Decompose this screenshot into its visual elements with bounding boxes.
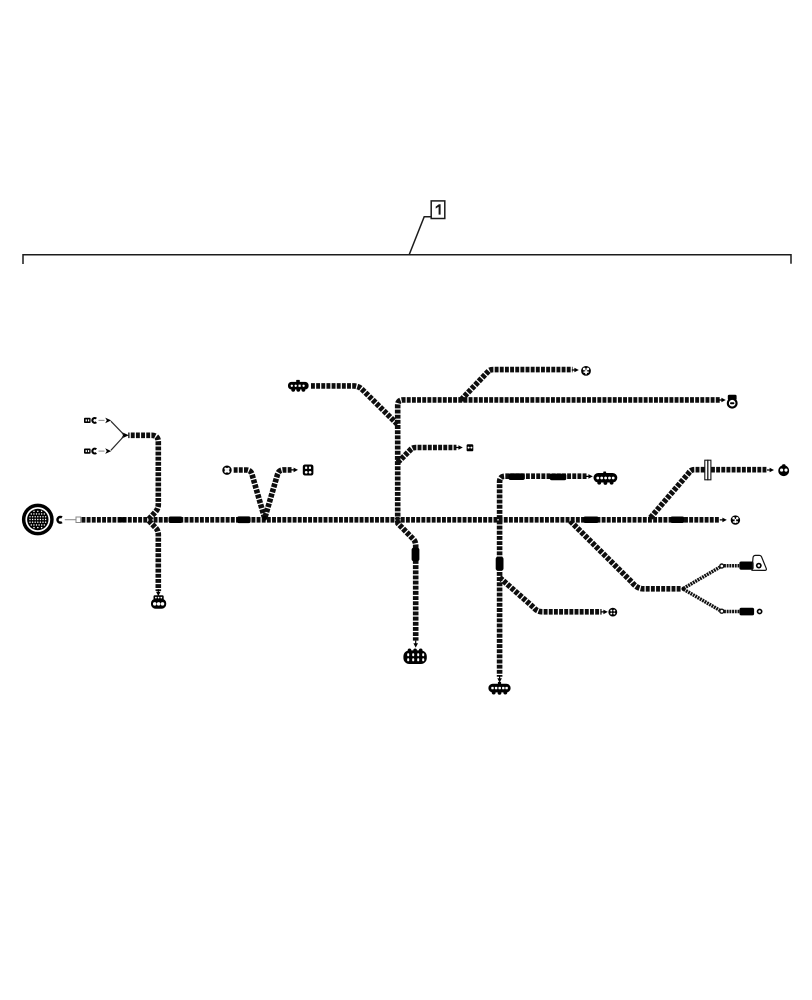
upper heat shrink cylinder <box>739 562 753 570</box>
thin lead wire from connector A to convergence <box>111 421 124 434</box>
wire from 3-hole connector sloping to vertical riser <box>311 386 398 425</box>
lower zigzag lead from fork <box>684 589 720 610</box>
callout leader line <box>409 217 431 255</box>
lower heat shrink cylinder <box>740 608 755 616</box>
connector A (square terminal + C ring) upper-left <box>84 418 111 424</box>
lower ring terminal <box>757 609 763 615</box>
small splice rectangle <box>76 517 81 523</box>
oval multipin connector x415 <box>403 649 426 665</box>
arrow at right end of y400 run <box>719 398 726 403</box>
small 2-pin square connector y447 <box>467 444 474 451</box>
diagonal from trunk x650 up to y470 run through clip <box>650 470 767 518</box>
V branch right wire <box>265 470 291 517</box>
drop below riser to oval connector <box>398 521 416 641</box>
C ring after big connector <box>58 517 62 523</box>
thin link line to trunk start <box>65 519 76 521</box>
upper coil section <box>724 564 739 568</box>
tape block on y476 run 2 <box>550 474 567 481</box>
long diagonal from trunk x570 down to fork <box>570 521 681 589</box>
tape block on trunk 4 <box>583 517 598 524</box>
fork junction dot <box>681 587 685 591</box>
square 4-pin connector (V right end) <box>303 465 314 476</box>
junction dot of V on trunk <box>262 516 267 521</box>
arrow down to oval connector <box>413 641 418 648</box>
wire: lower branch below left junction <box>149 521 159 591</box>
round connector at trunk right end <box>731 515 740 524</box>
long vertical wire x499 below trunk <box>497 521 503 677</box>
round connector at end of y370 run <box>581 366 591 376</box>
arrow to V-right connector <box>291 468 298 473</box>
loop in lower lead <box>720 609 724 613</box>
tape block on drop <box>412 548 420 562</box>
arrow at end of y370 run <box>572 368 579 373</box>
V branch left wire <box>234 470 265 517</box>
big round multipin connector far left <box>22 504 54 536</box>
thin lead wire from connector B to convergence <box>111 436 124 450</box>
arrow to 2-dot round connector <box>767 468 774 473</box>
tape block on trunk 2 <box>169 517 183 524</box>
tape block on x499 wire <box>496 557 504 571</box>
2-dot round connector far right y470 <box>778 464 789 476</box>
lower coil section <box>724 610 739 614</box>
convergence arrow at start of upper-left branch <box>121 432 129 439</box>
arrow down to flat oval connector <box>497 676 502 683</box>
arrow to 5-dot oval connector <box>586 474 593 479</box>
connector B (square terminal + C ring) lower <box>84 448 111 454</box>
big connector pin dots <box>29 511 46 529</box>
tape block on trunk 5 <box>670 517 684 524</box>
arrow at right end of trunk <box>720 518 727 523</box>
3-pin round connector at bottom of left drop <box>151 595 166 608</box>
upper zigzag lead from fork <box>684 567 720 588</box>
arrow down to 3-pin connector <box>156 589 161 596</box>
branch from x499 wire to button connector y612 <box>500 578 602 612</box>
riser x499 top bend into y476 run <box>500 476 587 519</box>
button 4-dot connector y612 <box>608 608 617 617</box>
tape block on y476 run 1 <box>509 473 525 480</box>
arrow to small square connector <box>456 445 463 450</box>
arrow to button connector <box>601 610 608 615</box>
upper ring terminal <box>752 555 766 570</box>
wire: upper-left branch rising from trunk junction <box>128 435 158 519</box>
clover round connector (V left end) <box>222 466 231 475</box>
bracket line spanning harness width <box>23 255 791 264</box>
short branch from riser to small square connector y447 <box>398 448 457 463</box>
flat 5-pin oval connector x499 <box>488 682 510 695</box>
5-dot oval connector y477 <box>594 472 618 485</box>
cable clip symbol <box>705 460 711 480</box>
branch from y400 run up to y370 run <box>461 370 573 400</box>
vertical riser wire x=398 with top bend to long horizontal run <box>398 400 720 520</box>
3-hole connector top middle <box>288 380 309 392</box>
callout box label 1 <box>431 201 445 219</box>
main trunk wire <box>82 517 720 523</box>
loop in upper lead <box>720 564 724 568</box>
socket connector at end of y400 run <box>727 395 738 409</box>
tape block on trunk 1 <box>119 517 127 522</box>
tape block on trunk 3 <box>237 516 251 523</box>
